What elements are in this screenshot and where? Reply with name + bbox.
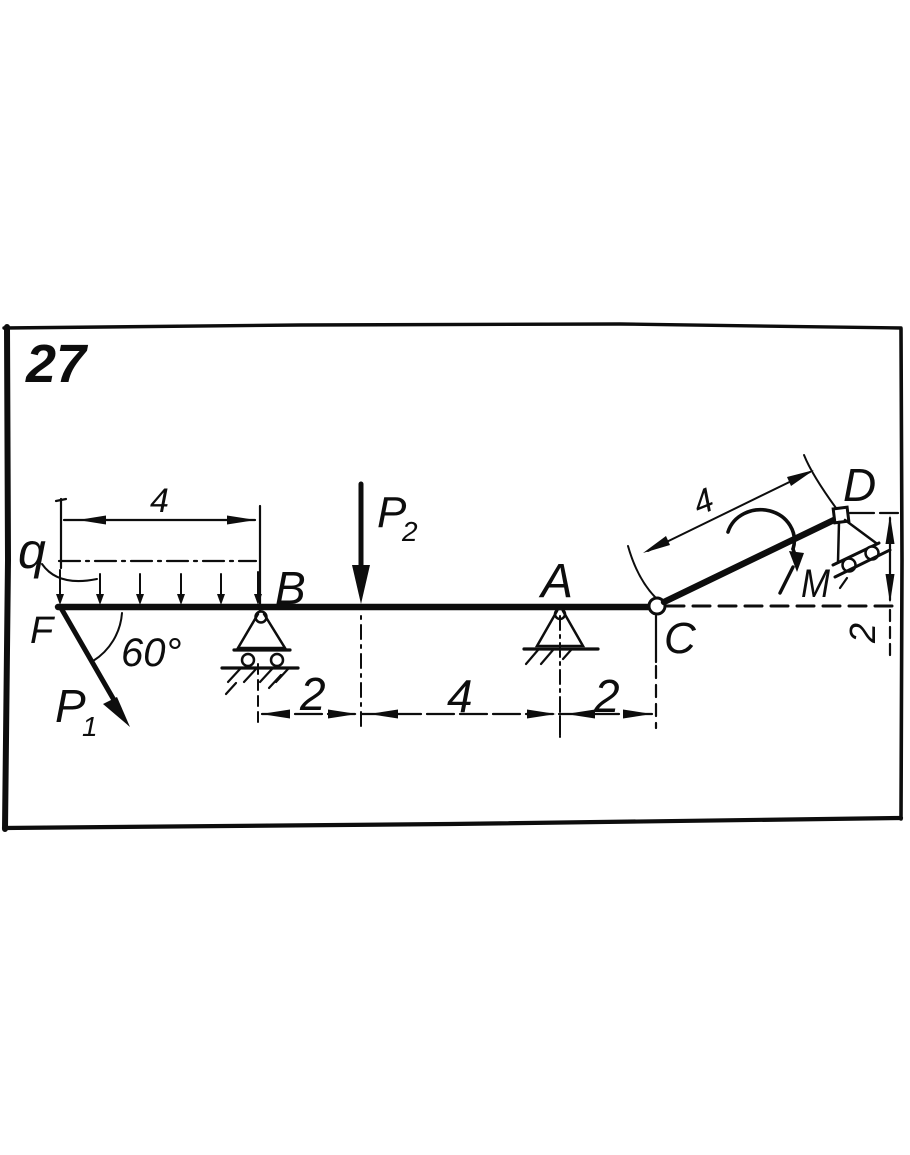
moment M arc (728, 510, 794, 549)
right dim arrow up (886, 515, 895, 544)
svg-text:F: F (30, 610, 55, 652)
extension line right of D (850, 512, 898, 514)
svg-text:D: D (843, 459, 876, 511)
distributed load q dash-dot top line (59, 560, 256, 562)
roller support B hinge circle (256, 612, 267, 623)
q leader curve (42, 564, 97, 581)
svg-text:2: 2 (401, 516, 418, 547)
incline dim arrow upper (787, 470, 814, 486)
moment M arrowhead (789, 551, 804, 572)
load arrow 3 (139, 574, 141, 597)
moment M arrow slash (780, 567, 793, 593)
pin support A ground line (524, 647, 598, 650)
svg-text:2: 2 (593, 670, 620, 722)
hinge D square (833, 507, 849, 523)
svg-text:q: q (18, 523, 46, 579)
bottom extension line at B (257, 664, 259, 728)
dim arrow right (227, 516, 256, 525)
force P1 arrow (61, 608, 118, 707)
hinge C circle (649, 598, 665, 614)
load arrow 4 (180, 574, 182, 597)
dimension line F-B (64, 519, 255, 521)
bottom dimension line (262, 713, 652, 715)
beam F-C (58, 604, 651, 610)
roller support D side slanted (845, 520, 876, 543)
load arrow 2 (99, 574, 101, 597)
svg-text:4: 4 (447, 670, 473, 722)
roller support D side vertical (838, 522, 839, 562)
force P2 arrow (359, 484, 364, 590)
svg-text:2: 2 (842, 623, 883, 644)
incline dim arrow lower (643, 536, 670, 553)
svg-text:1: 1 (82, 711, 98, 742)
bottom dim arrow at B (261, 710, 290, 719)
right dim tail below (889, 610, 891, 657)
right dim arrow down (886, 574, 895, 603)
svg-text:A: A (538, 555, 573, 608)
frame border bottom (4, 818, 901, 828)
bottom extension line at P2 (360, 616, 362, 731)
frame border top (4, 324, 901, 328)
C extension line below (655, 616, 657, 662)
roller support D roller 1 (843, 559, 856, 572)
incline extension arc at D end (804, 455, 836, 508)
dashed line C to right border (667, 605, 897, 608)
bottom extension line at A tail (559, 700, 561, 737)
pin support A center dash-dot line (559, 616, 561, 735)
roller support B triangle (238, 614, 285, 648)
roller support B hatching (228, 669, 240, 682)
bottom dim arrow left of A (527, 710, 556, 719)
svg-text:4: 4 (688, 481, 720, 523)
load arrow 1 (59, 570, 61, 597)
bottom dim arrow left of P2 (328, 710, 357, 719)
dimension 4 extension line at F (60, 499, 62, 568)
bar C-D (664, 519, 836, 602)
roller support B base line (234, 648, 290, 651)
dimension 4 extension line at B (259, 506, 261, 611)
pin support A hinge circle (555, 609, 565, 619)
bottom dim arrow right of P2 (369, 710, 398, 719)
frame border left (5, 327, 8, 829)
roller support D hatch (840, 578, 847, 588)
roller support D base (833, 543, 879, 565)
frame border right (901, 329, 902, 819)
roller support D roller 2 (866, 547, 879, 560)
svg-text:2: 2 (299, 668, 326, 720)
incline extension arc at C end (628, 546, 655, 597)
svg-text:4: 4 (150, 482, 169, 520)
svg-text:M: M (801, 562, 831, 606)
load arrow 5 (220, 574, 222, 597)
bottom dim arrow at C (623, 710, 652, 719)
60 degree arc (93, 613, 122, 661)
right dimension 2 line (889, 518, 891, 600)
svg-text:60°: 60° (121, 631, 182, 675)
bottom dim arrow right of A (566, 710, 595, 719)
roller support B ground line (222, 666, 298, 669)
roller support D ground line (835, 550, 890, 577)
roller support B roller 2 (271, 654, 283, 666)
svg-text:C: C (664, 614, 697, 663)
pin support A hatching (526, 650, 538, 664)
svg-text:B: B (275, 562, 306, 614)
dim arrow left (78, 516, 106, 525)
svg-text:27: 27 (25, 334, 89, 394)
incline dimension line 4 (648, 472, 810, 551)
load arrow 6 (257, 572, 259, 597)
roller support B roller 1 (242, 654, 254, 666)
pin support A triangle (537, 611, 583, 646)
